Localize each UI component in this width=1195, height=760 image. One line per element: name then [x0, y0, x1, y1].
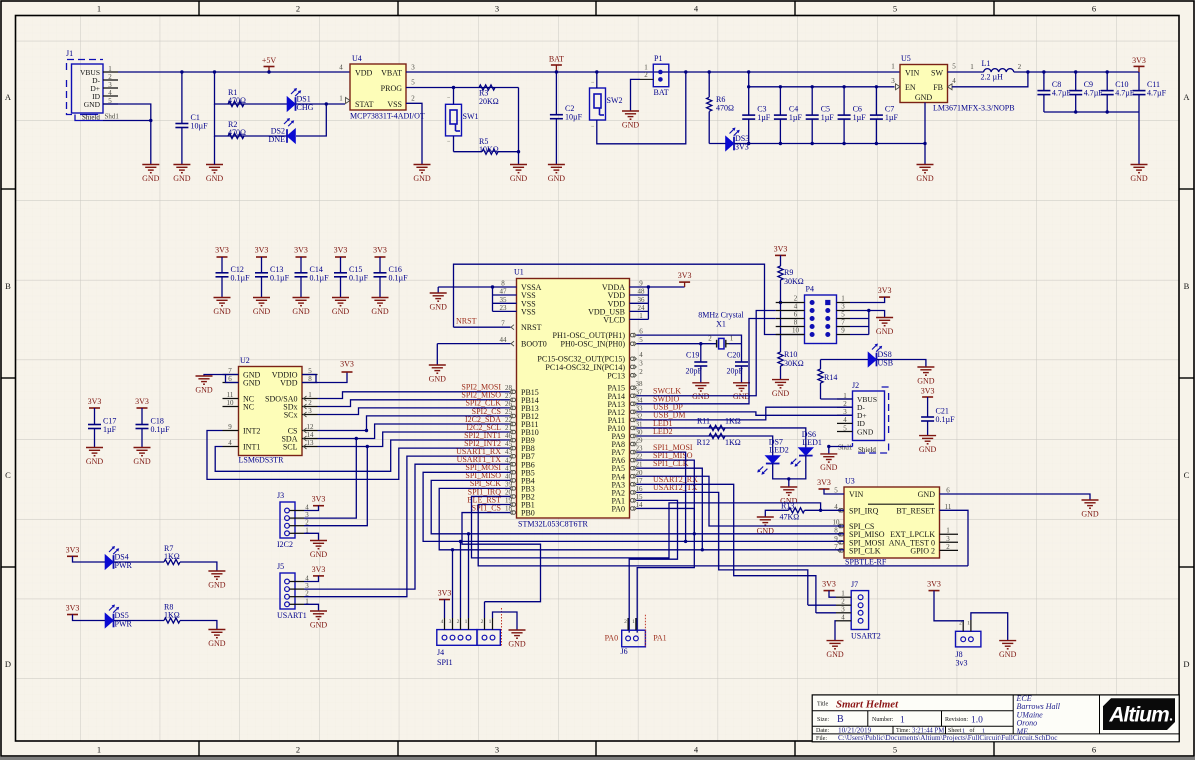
svg-text:EN: EN — [905, 83, 916, 92]
wire OSC in — [637, 343, 718, 345]
junction SPI_IRQ — [819, 509, 822, 512]
ground U3 — [1081, 500, 1099, 518]
junction R5 gnd — [517, 150, 520, 153]
junction EN rail C7 — [875, 85, 878, 88]
svg-text:SW1: SW1 — [463, 112, 479, 121]
junction J3 SDA — [355, 437, 358, 440]
svg-text:GND: GND — [820, 463, 838, 472]
svg-text:ME: ME — [1016, 727, 1029, 736]
svg-text:GND: GND — [133, 457, 151, 466]
wire J8 pin1 3V3 — [934, 591, 963, 621]
svg-text:U1: U1 — [514, 268, 524, 277]
ground J3 — [310, 541, 328, 559]
wire R13 to U3 — [805, 509, 845, 511]
ground DS8 — [917, 367, 935, 385]
svg-text:3V3: 3V3 — [927, 580, 941, 589]
wire U2 vdd pins — [302, 375, 316, 383]
svg-text:15: 15 — [636, 493, 644, 501]
svg-text:GND: GND — [919, 445, 937, 454]
svg-text:9: 9 — [639, 280, 643, 288]
svg-text:GND: GND — [84, 100, 101, 109]
svg-text:4: 4 — [952, 77, 956, 85]
wire DS5 to R8 — [114, 620, 164, 622]
wire USB_DM — [637, 407, 853, 420]
svg-text:5: 5 — [639, 336, 643, 344]
LED DS3 — [726, 128, 750, 152]
svg-text:31: 31 — [636, 420, 644, 428]
junction STAT node — [325, 102, 328, 105]
capacitor C12 — [216, 257, 251, 298]
connector J3 — [277, 491, 309, 549]
connector J8 — [956, 620, 981, 668]
svg-text:GND: GND — [208, 580, 226, 589]
wire J4 pin6 gnd — [493, 612, 518, 630]
svg-text:10µF: 10µF — [565, 113, 583, 122]
svg-text:6: 6 — [1092, 4, 1096, 14]
junction R6 top — [708, 70, 711, 73]
svg-text:X1: X1 — [716, 320, 726, 329]
svg-text:3: 3 — [946, 535, 950, 543]
svg-text:L1: L1 — [982, 59, 991, 68]
wire BOOT0 gnd stem — [436, 344, 438, 365]
svg-text:1: 1 — [465, 619, 468, 625]
svg-text:20: 20 — [636, 469, 644, 477]
ground P4 — [876, 318, 894, 336]
svg-text:File:: File: — [816, 736, 827, 742]
svg-text:5: 5 — [841, 311, 845, 319]
svg-text:3V3: 3V3 — [294, 246, 308, 255]
wire U2 vdd to 3V3 — [316, 372, 347, 383]
wire VSS bundle — [492, 287, 494, 311]
svg-text:USART2: USART2 — [851, 632, 881, 641]
wire P1 pin2 gnd — [631, 79, 641, 111]
ground C12 — [213, 298, 231, 316]
power 3V3 DS5 — [66, 604, 80, 615]
crystal X1 — [698, 311, 744, 349]
svg-text:2: 2 — [794, 295, 798, 303]
wire J4 pin1 3V3 — [444, 600, 446, 619]
svg-text:43: 43 — [505, 448, 513, 456]
svg-text:GND: GND — [292, 307, 310, 316]
svg-text:1: 1 — [339, 95, 343, 103]
junction EN rail C6 — [842, 85, 845, 88]
svg-text:Shd1: Shd1 — [105, 113, 120, 121]
svg-text:VBAT: VBAT — [381, 69, 402, 78]
svg-text:19: 19 — [505, 497, 513, 505]
svg-text:BAT: BAT — [654, 88, 669, 97]
svg-text:GND: GND — [733, 392, 751, 401]
capacitor C13 — [255, 257, 290, 298]
resistor R13 — [780, 501, 805, 521]
wire SPI_SCK corridor — [439, 488, 844, 549]
svg-text:GND: GND — [195, 385, 213, 394]
svg-text:GND: GND — [1081, 509, 1099, 518]
svg-text:20KΩ: 20KΩ — [479, 97, 499, 106]
LED DS1 — [287, 88, 314, 112]
svg-text:3V3: 3V3 — [334, 246, 348, 255]
svg-text:6: 6 — [794, 311, 798, 319]
svg-text:32: 32 — [636, 412, 644, 420]
wire SPI1_MOSI tap — [637, 452, 686, 541]
svg-text:+5V: +5V — [262, 56, 277, 65]
junction +5V at R1 drop — [213, 70, 216, 73]
svg-text:3: 3 — [108, 81, 112, 89]
svg-text:30KΩ: 30KΩ — [784, 277, 804, 286]
svg-text:5: 5 — [843, 424, 847, 432]
ground J7 — [826, 641, 844, 659]
svg-text:R12: R12 — [697, 438, 710, 447]
svg-text:2: 2 — [639, 368, 643, 376]
junction bottom C9 — [1074, 110, 1077, 113]
svg-text:4: 4 — [794, 303, 798, 311]
svg-text:LED2: LED2 — [769, 446, 789, 455]
wire J8 pin2 gnd — [971, 613, 1008, 641]
svg-text:GND: GND — [510, 174, 528, 183]
power 3V3 P4 — [878, 286, 892, 297]
svg-text:2: 2 — [411, 95, 415, 103]
ground MCU top — [430, 293, 448, 311]
capacitor C15 — [334, 257, 369, 298]
svg-text:1: 1 — [970, 63, 974, 71]
svg-text:2: 2 — [296, 4, 300, 14]
wire J3 pin4 3V3 — [304, 506, 319, 511]
power +5V — [262, 56, 277, 72]
svg-text:GND: GND — [430, 302, 448, 311]
junction EN rail top — [747, 70, 750, 73]
LED DS6 — [790, 430, 822, 467]
wire INT1 route — [215, 440, 510, 471]
svg-text:3: 3 — [449, 619, 452, 625]
junction SW2 loop to rail — [684, 70, 687, 73]
wire U4 VSS down — [406, 103, 422, 164]
svg-text:GND: GND — [310, 550, 328, 559]
power 3V3 C18 — [135, 397, 149, 408]
svg-text:VSS: VSS — [521, 307, 536, 316]
svg-text:7: 7 — [841, 319, 845, 327]
svg-text:GND: GND — [916, 174, 934, 183]
svg-text:1: 1 — [308, 391, 312, 399]
wire P4 gnd bundle — [850, 311, 885, 318]
wire J1 shield to GND — [103, 121, 151, 165]
wire R8 to gnd — [180, 621, 217, 630]
power 3V3 J7 — [822, 580, 836, 591]
svg-text:U5: U5 — [901, 54, 911, 63]
junction 3V3 rail C8 — [1042, 70, 1045, 73]
junction EN at C3 — [747, 85, 750, 88]
ground J1 — [142, 165, 160, 183]
junction P4 gnd — [867, 309, 870, 312]
svg-text:VLCD: VLCD — [603, 315, 625, 324]
svg-text:BOOT0: BOOT0 — [521, 340, 547, 349]
ground J2 — [820, 454, 838, 472]
junction J3 SCL — [366, 445, 369, 448]
svg-text:1KΩ: 1KΩ — [164, 611, 180, 620]
wire J4 pin3 up — [460, 541, 462, 618]
wire DS8 cathode — [877, 360, 926, 368]
junction PROG SW1 — [452, 86, 455, 89]
ground J8 — [999, 641, 1017, 659]
wire R7 to gnd — [180, 562, 217, 571]
svg-text:GND: GND — [208, 639, 226, 648]
wire R6 to DS3 — [709, 143, 725, 145]
svg-text:NRST: NRST — [521, 323, 542, 332]
ground J4 — [508, 630, 526, 648]
svg-text:0.1µF: 0.1µF — [936, 415, 956, 424]
svg-text:R10: R10 — [784, 350, 797, 359]
LED DS7 — [757, 438, 789, 475]
svg-text:GND: GND — [622, 120, 640, 129]
junction VSSA — [491, 285, 494, 288]
svg-text:GND: GND — [917, 376, 935, 385]
svg-text:25: 25 — [505, 408, 513, 416]
wire 3V3 to DS4 — [73, 556, 106, 562]
svg-text:11: 11 — [227, 391, 234, 399]
ground J5 — [310, 611, 328, 629]
svg-text:J2: J2 — [852, 381, 859, 390]
svg-text:3V3: 3V3 — [774, 245, 788, 254]
ground output caps — [1130, 165, 1148, 183]
svg-text:B: B — [5, 281, 11, 291]
svg-text:3V3: 3V3 — [921, 387, 935, 396]
wire PROG row — [406, 87, 519, 89]
wire R14 to VBUS — [821, 398, 853, 400]
svg-text:NRST: NRST — [456, 317, 477, 326]
svg-text:1: 1 — [841, 295, 845, 303]
svg-text:U3: U3 — [845, 477, 855, 486]
svg-text:12: 12 — [307, 423, 315, 431]
svg-text:6: 6 — [1092, 745, 1096, 755]
svg-text:P4: P4 — [806, 285, 814, 294]
svg-text:R14: R14 — [824, 373, 837, 382]
LED DS8 — [868, 344, 893, 368]
svg-text:3: 3 — [639, 359, 643, 367]
connector P1 — [640, 54, 669, 97]
wire SWCLK — [637, 311, 776, 396]
svg-text:8: 8 — [501, 280, 505, 288]
svg-text:2: 2 — [624, 619, 627, 625]
svg-text:44: 44 — [500, 336, 508, 344]
wire U2 SPI2 net 1 — [318, 392, 511, 399]
wire J7 pin1 3V3 — [829, 591, 836, 598]
svg-text:Sheet: Sheet — [948, 728, 962, 734]
wire J3 pin2 SCL — [304, 447, 367, 526]
wire U2 gnd pins — [226, 375, 239, 383]
svg-text:PB0: PB0 — [521, 509, 535, 518]
svg-text:VDD: VDD — [280, 378, 298, 387]
svg-text:1µF: 1µF — [821, 113, 835, 122]
svg-text:Number:: Number: — [872, 717, 894, 723]
svg-text:GND: GND — [826, 650, 844, 659]
wire VSS 35 — [493, 302, 517, 304]
svg-text:GND: GND — [915, 93, 933, 102]
ground under R2 column — [206, 165, 224, 183]
svg-text:SCL: SCL — [283, 442, 298, 451]
ground R10 — [772, 380, 790, 398]
wire PA1 route — [629, 500, 677, 632]
svg-text:47KΩ: 47KΩ — [780, 512, 800, 521]
capacitor C21 — [921, 397, 955, 436]
svg-text:2: 2 — [457, 619, 460, 625]
svg-text:37: 37 — [636, 388, 644, 396]
wire J7 pin3 stub — [816, 612, 836, 614]
junction J4 pin4 — [467, 532, 470, 535]
wire R1 row — [215, 72, 288, 104]
wire P4 pin5 — [850, 318, 869, 320]
svg-text:1µF: 1µF — [789, 113, 803, 122]
resistor R11 — [697, 416, 741, 430]
wire OSC out — [637, 335, 742, 344]
wire R3 to R5 vertical — [518, 88, 520, 152]
junction FB node — [1026, 70, 1029, 73]
svg-text:BAT: BAT — [549, 55, 564, 64]
wire P4 gnd vertical — [868, 311, 870, 335]
wire P4 pin7 — [850, 326, 869, 328]
junction bottom rail C6 — [842, 142, 845, 145]
svg-text:3V3: 3V3 — [255, 246, 269, 255]
svg-text:INT2: INT2 — [243, 426, 260, 435]
svg-text:J5: J5 — [277, 562, 284, 571]
svg-text:14: 14 — [636, 501, 644, 509]
svg-text:1KΩ: 1KΩ — [725, 416, 741, 425]
svg-text:LED1: LED1 — [802, 438, 822, 447]
wire NRST to P4 — [454, 264, 805, 334]
wire J5 pin2 USART1_RX — [304, 456, 511, 597]
junction BAT — [555, 70, 558, 73]
ground DS6 DS7 — [780, 487, 798, 505]
resistor R3 — [479, 85, 499, 106]
svg-text:2: 2 — [708, 335, 712, 343]
svg-text:33: 33 — [636, 404, 644, 412]
ground U2 — [195, 376, 213, 394]
svg-text:C14: C14 — [310, 265, 323, 274]
svg-text:PA0: PA0 — [612, 504, 626, 513]
svg-text:1: 1 — [946, 527, 950, 535]
wire SW1 top pin — [453, 88, 455, 105]
power 3V3 MCU — [678, 271, 692, 287]
svg-text:2: 2 — [481, 619, 484, 625]
svg-text:3V3: 3V3 — [817, 478, 831, 487]
svg-text:22: 22 — [636, 453, 644, 461]
ground C17 — [86, 448, 104, 466]
svg-text:I2C2: I2C2 — [277, 540, 293, 549]
wire VDD bundle — [647, 287, 649, 319]
svg-text:GND: GND — [310, 620, 328, 629]
pin stubs U3 right — [940, 534, 959, 550]
ground C15 — [332, 298, 350, 316]
wire DS8 anode — [821, 359, 869, 361]
ground R13 — [757, 517, 775, 535]
svg-text:4: 4 — [228, 439, 232, 447]
ground C21 — [919, 436, 937, 454]
junction bottom rail C5 — [811, 142, 814, 145]
svg-text:BT_RESET: BT_RESET — [896, 506, 935, 515]
svg-text:11: 11 — [945, 503, 952, 511]
wire VSS 47 — [493, 294, 517, 296]
switch SW1 — [446, 96, 479, 146]
svg-text:U2: U2 — [240, 356, 250, 365]
junction C19 — [699, 342, 702, 345]
svg-text:C: C — [1184, 470, 1190, 480]
connector J2 — [837, 381, 889, 454]
svg-text:20pF: 20pF — [686, 367, 703, 376]
svg-text:28: 28 — [505, 384, 513, 392]
svg-text:D: D — [5, 659, 11, 669]
svg-text:Shield: Shield — [82, 114, 100, 122]
power 3V3 DS4 — [66, 545, 80, 556]
wire J4 pin4 up — [468, 534, 470, 618]
svg-text:2: 2 — [1018, 63, 1022, 71]
svg-text:GND: GND — [86, 457, 104, 466]
wire EN drop — [748, 72, 750, 87]
wire U2 SPI2 net 3 — [318, 408, 511, 415]
junction EN rail C5 — [811, 85, 814, 88]
svg-text:GND: GND — [918, 490, 936, 499]
wire J7 pin4 gnd — [835, 621, 836, 641]
svg-text:3V3: 3V3 — [878, 286, 892, 295]
resistor R8 — [164, 603, 180, 624]
wire VBAT rail — [406, 71, 556, 73]
svg-text:B: B — [1184, 281, 1190, 291]
junction J4 pin2 — [451, 548, 454, 551]
ground BOOT0 — [429, 365, 447, 383]
wire BOOT0 — [437, 343, 510, 345]
svg-text:1: 1 — [639, 312, 643, 320]
svg-text:1: 1 — [108, 65, 112, 73]
svg-text:4: 4 — [834, 503, 838, 511]
svg-text:P1: P1 — [654, 54, 662, 63]
power 3V3 C17 — [88, 397, 102, 408]
svg-text:1: 1 — [891, 63, 895, 71]
wire 3V3 to DS5 — [73, 615, 106, 621]
svg-text:PC13: PC13 — [607, 371, 625, 380]
ground U5 — [916, 165, 934, 183]
svg-text:0.1µF: 0.1µF — [349, 274, 369, 283]
power 3V3 C16 — [373, 246, 387, 258]
capacitor C8 — [1037, 72, 1071, 112]
wire R2 gnd stem — [214, 136, 216, 165]
wire VSSA gnd — [438, 286, 516, 288]
svg-text:GND: GND — [243, 378, 261, 387]
Altium logo — [1103, 698, 1175, 730]
svg-text:29: 29 — [636, 437, 644, 445]
svg-text:GND: GND — [413, 174, 431, 183]
capacitor C9 — [1069, 72, 1103, 112]
svg-text:GND: GND — [173, 174, 191, 183]
svg-text:C20: C20 — [727, 351, 740, 360]
ground C20 — [733, 383, 751, 401]
svg-text:3: 3 — [841, 605, 845, 613]
svg-text:47: 47 — [500, 288, 508, 296]
ground C1 — [173, 165, 191, 183]
svg-text:PROG: PROG — [381, 84, 403, 93]
wire VDD row 319.4 — [630, 318, 649, 320]
svg-text:23: 23 — [500, 304, 508, 312]
wire INT2 route — [207, 431, 511, 480]
connector J7 — [836, 580, 881, 641]
svg-text:2.2 µH: 2.2 µH — [981, 73, 1004, 82]
LED DS2 — [269, 118, 296, 144]
svg-text:U4: U4 — [352, 54, 362, 63]
svg-text:17: 17 — [636, 477, 644, 485]
svg-text:C16: C16 — [389, 265, 402, 274]
svg-text:46: 46 — [505, 432, 513, 440]
wire J4 pin2 up — [452, 550, 454, 618]
svg-text:Altium: Altium — [1108, 704, 1169, 727]
svg-text:A: A — [1183, 92, 1190, 102]
svg-text:4: 4 — [841, 613, 845, 621]
IC U5 regulator — [891, 54, 1014, 113]
svg-text:VIN: VIN — [905, 69, 919, 78]
